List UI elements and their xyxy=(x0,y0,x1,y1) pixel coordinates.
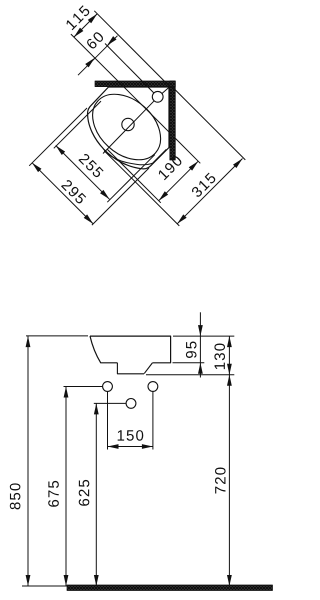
dimension line 190 xyxy=(159,161,199,201)
arrow 95 top (down) xyxy=(198,325,203,336)
dimension line 255 xyxy=(56,146,110,200)
basin inner rim (plan) xyxy=(103,149,166,165)
dimension line 315 xyxy=(177,159,242,224)
extension line top right xyxy=(173,335,234,337)
label 60 xyxy=(85,31,104,50)
label 675 xyxy=(48,481,59,507)
arrow 295 NW xyxy=(30,161,41,172)
label 190 xyxy=(157,155,183,181)
extension line ellipse NW xyxy=(54,101,101,148)
floor bar xyxy=(67,585,273,591)
extension line front tip SE (315) xyxy=(104,151,179,226)
arrow 115 SW xyxy=(72,28,83,39)
arrow 315 SW xyxy=(176,214,187,225)
dimension line 130 and 720 xyxy=(228,336,230,586)
extension line bowl back SE (190) xyxy=(175,138,200,163)
label 130 xyxy=(214,344,225,370)
basin outline (plan) xyxy=(88,87,169,169)
dimension line 60 xyxy=(78,36,118,75)
arrow 60 lower (points NE) xyxy=(85,56,96,67)
extension line wall corner NW xyxy=(94,11,170,87)
arrow 150 right xyxy=(142,444,153,449)
extension line ellipse SE xyxy=(107,155,155,203)
dimension line 625 xyxy=(95,403,97,586)
extension line outline NW corner xyxy=(29,108,87,166)
arrow 130 top (up) xyxy=(227,336,232,347)
label 150 xyxy=(118,430,144,441)
bowl ellipse (plan) xyxy=(80,81,174,173)
extension line basin bottom right xyxy=(173,362,205,364)
arrow 295 SE xyxy=(84,214,95,225)
arrow 190 NE xyxy=(189,160,200,171)
arrow 850 bottom xyxy=(26,575,31,586)
arrow 190 SW xyxy=(157,191,168,202)
extension line below left hole xyxy=(107,392,109,450)
mounting hole circle center xyxy=(126,399,136,409)
label 295 xyxy=(61,179,87,205)
mounting hole circle right xyxy=(148,382,158,392)
arrow 130 bottom (down) xyxy=(227,364,232,375)
arrow 255 NW xyxy=(54,144,65,155)
label 315 xyxy=(191,172,217,198)
arrow 115 NE xyxy=(88,12,99,23)
tap hole circle xyxy=(152,91,163,102)
dimension line 95 xyxy=(199,312,201,377)
label 850 xyxy=(10,483,21,509)
extension line wall corner SE (315) xyxy=(171,86,245,160)
basin profile top edge xyxy=(90,336,171,363)
arrow 315 NE xyxy=(233,157,244,168)
dimension line 295 xyxy=(32,163,93,224)
extension line 625 horizontal xyxy=(94,402,126,404)
extension line 850 left xyxy=(26,335,88,337)
label 625 xyxy=(79,480,90,506)
arrow 60 upper (points SW) xyxy=(105,36,116,47)
arrow 720 top (up) xyxy=(227,375,232,386)
arrow 150 left xyxy=(108,444,119,449)
extension line outline SE corner xyxy=(92,168,149,225)
wall horizontal bar (plan) xyxy=(95,81,175,87)
arrow 255 SE xyxy=(100,190,111,201)
wall vertical bar (plan) xyxy=(170,81,176,160)
extension line fixing level xyxy=(146,374,234,376)
axis centerline xyxy=(103,87,170,154)
arrow 625 bottom xyxy=(94,575,99,586)
extension line bowl NE xyxy=(71,34,170,133)
dimension line 675 xyxy=(65,387,67,587)
arrow 675 top xyxy=(64,387,69,398)
arrow 720 bottom (down) xyxy=(227,575,232,586)
extension line front tip SE (190) xyxy=(107,149,161,203)
label 720 xyxy=(215,468,226,494)
label 255 xyxy=(78,153,104,179)
floor thin line xyxy=(22,585,67,587)
extension line below right hole xyxy=(152,392,154,450)
dimension line 850 xyxy=(27,336,29,586)
mounting hole circle left xyxy=(103,382,113,392)
arrow 675 bottom xyxy=(64,575,69,586)
arrow 95 bottom (up) xyxy=(198,363,203,374)
trap outline xyxy=(117,363,144,374)
trap slant xyxy=(144,363,152,374)
extension line tap hole xyxy=(105,44,154,94)
extension line 675 horizontal xyxy=(64,386,103,388)
label 115 xyxy=(65,5,90,30)
label 95 xyxy=(186,342,197,359)
arrow 850 top xyxy=(26,336,31,347)
dimension line 115 xyxy=(74,14,97,37)
basin profile left curve xyxy=(90,336,117,363)
arrow 625 top xyxy=(94,403,99,414)
dimension line 150 xyxy=(108,446,153,448)
drain hole circle xyxy=(122,118,134,130)
